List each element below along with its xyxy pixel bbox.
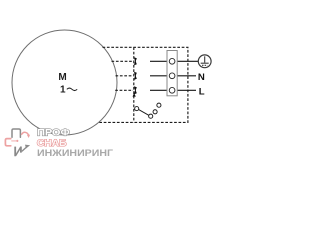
- svg-text:M: M: [58, 72, 66, 83]
- svg-text:СНАБ: СНАБ: [37, 137, 67, 148]
- svg-text:N: N: [198, 72, 205, 83]
- svg-text:ПРОФ: ПРОФ: [37, 127, 70, 137]
- svg-text:1: 1: [60, 85, 66, 96]
- svg-text:ИНЖИНИРИНГ: ИНЖИНИРИНГ: [37, 148, 114, 158]
- svg-text:L: L: [199, 87, 205, 98]
